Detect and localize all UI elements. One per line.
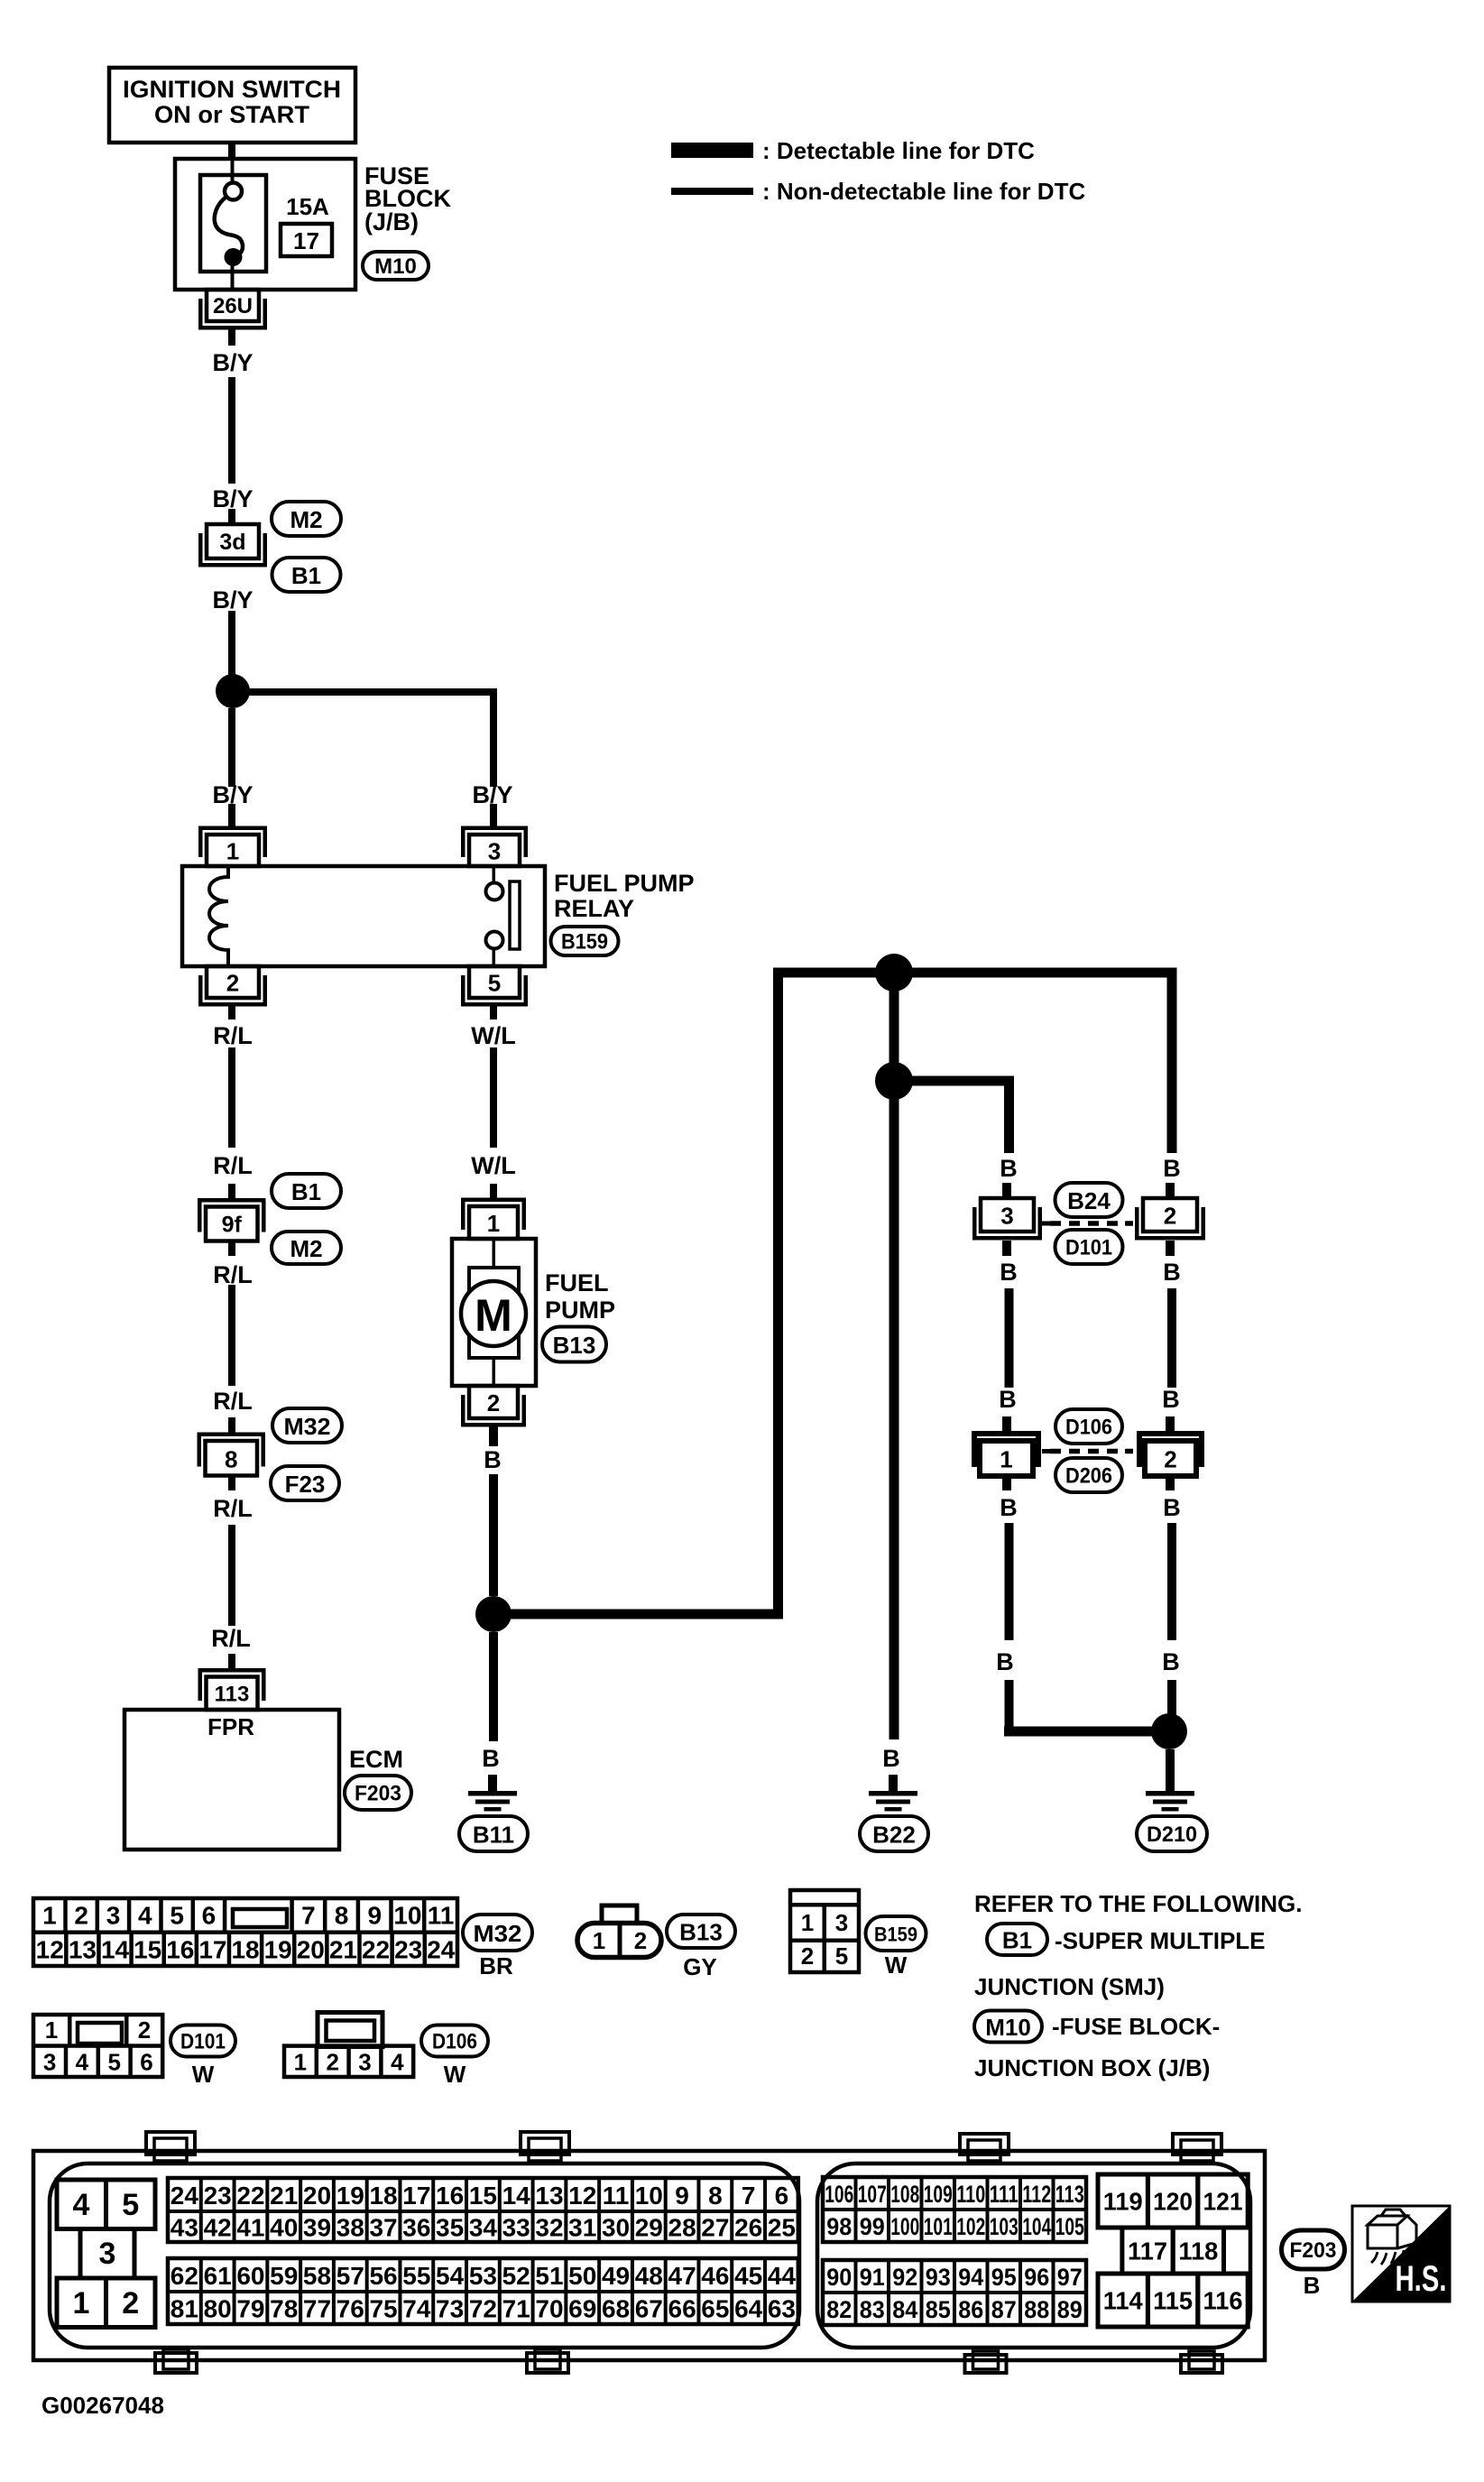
svg-text:B: B	[482, 1745, 500, 1772]
svg-text:84: 84	[892, 2296, 917, 2323]
svg-text:48: 48	[635, 2262, 663, 2290]
relay coil	[209, 868, 228, 966]
svg-text:B24: B24	[1067, 1187, 1111, 1214]
wire label B/Y left	[212, 781, 253, 808]
svg-text:27: 27	[701, 2214, 729, 2242]
wire stub below relay pin 2	[228, 1005, 235, 1020]
svg-text:45: 45	[734, 2262, 762, 2290]
svg-text:57: 57	[336, 2262, 364, 2290]
wire label B/Y	[212, 349, 253, 376]
relay terminal 3	[461, 826, 528, 867]
svg-text:68: 68	[602, 2295, 630, 2323]
svg-text:B: B	[1162, 1648, 1180, 1675]
relay terminal 2	[198, 966, 267, 1007]
svg-text:111: 111	[990, 2181, 1019, 2208]
svg-text:GY: GY	[683, 1953, 717, 1980]
svg-text:B: B	[999, 1386, 1017, 1413]
svg-text:R/L: R/L	[213, 1388, 253, 1415]
svg-text:104: 104	[1022, 2213, 1051, 2240]
svg-text:PUMP: PUMP	[545, 1296, 615, 1324]
connector 3 B24/D101 left	[972, 1198, 1050, 1241]
connector face view D106	[284, 2013, 413, 2078]
ECM key pins 1-5	[57, 2180, 155, 2328]
svg-text:75: 75	[369, 2295, 397, 2323]
svg-text:106: 106	[825, 2181, 853, 2208]
svg-text:B/Y: B/Y	[212, 586, 253, 614]
svg-text:82: 82	[826, 2296, 852, 2323]
wire col2 to node E	[1167, 1680, 1176, 1731]
wire stub above connector 3	[1002, 1183, 1011, 1200]
svg-text:B159: B159	[561, 930, 608, 955]
label FUEL PUMP	[545, 1269, 615, 1324]
svg-text:M10: M10	[374, 254, 417, 279]
svg-text:16: 16	[166, 1936, 194, 1964]
wire label B left ground	[482, 1745, 500, 1772]
svg-text:1: 1	[801, 1909, 814, 1936]
label ECM	[349, 1746, 403, 1773]
svg-text:83: 83	[860, 2296, 885, 2323]
svg-text:R/L: R/L	[213, 1152, 253, 1179]
fuel pump relay box	[182, 866, 545, 966]
ECM pin grid 106-113 / 98-105	[823, 2177, 1086, 2242]
svg-text:17: 17	[402, 2182, 430, 2210]
svg-text:21: 21	[329, 1936, 357, 1964]
svg-text:5: 5	[488, 970, 501, 997]
svg-text:78: 78	[270, 2295, 298, 2323]
connector 9f	[198, 1198, 266, 1241]
relay contact circle top	[486, 883, 503, 900]
svg-text:32: 32	[535, 2214, 563, 2242]
svg-text:B159: B159	[874, 1924, 917, 1946]
svg-text:102: 102	[956, 2213, 985, 2240]
svg-text:20: 20	[303, 2182, 331, 2210]
note SUPER MULTIPLE	[1055, 1927, 1266, 1954]
svg-text:B1: B1	[291, 562, 321, 589]
wire stub below connector 2 right	[1166, 1241, 1175, 1256]
svg-text:25: 25	[768, 2214, 796, 2242]
svg-text:53: 53	[469, 2262, 497, 2290]
svg-text:M32: M32	[474, 1920, 522, 1947]
wire col1 vertical low	[1005, 1523, 1014, 1640]
connector ref D106 oval	[1055, 1409, 1122, 1444]
svg-text:26U: 26U	[213, 294, 253, 318]
svg-text:39: 39	[303, 2214, 331, 2242]
svg-text:24: 24	[427, 1936, 456, 1964]
ground symbol B22	[869, 1791, 917, 1812]
svg-text:90: 90	[826, 2264, 852, 2291]
ECM pin grid 24-6 / 43-25	[168, 2178, 798, 2242]
svg-text:5: 5	[170, 1902, 184, 1930]
svg-text:RELAY: RELAY	[554, 895, 634, 922]
thick wire right column down	[1167, 973, 1177, 1153]
svg-text:72: 72	[469, 2295, 497, 2323]
wire node E to D210 ground	[1166, 1749, 1175, 1792]
wire junction A to relay pin1 branch	[228, 708, 235, 787]
wire label B col1 lowest	[996, 1648, 1014, 1675]
thick wire right riser vertical	[773, 973, 783, 1614]
ECM connector top tabs	[146, 2132, 1221, 2161]
connector face view D101	[33, 2015, 162, 2078]
label BR	[479, 1952, 513, 1979]
svg-text:28: 28	[668, 2214, 696, 2242]
fuel pump motor wire bottom	[493, 1358, 496, 1386]
wire label R/L 4	[213, 1388, 253, 1415]
wire label B col1 top	[1000, 1155, 1018, 1182]
note JUNCTION (SMJ)	[974, 1973, 1165, 2000]
wire stub below connector 1	[1002, 1476, 1011, 1490]
wire B/Y to junction	[228, 611, 235, 675]
svg-text:1: 1	[593, 1927, 605, 1954]
svg-text:37: 37	[369, 2214, 397, 2242]
legend detectable text	[762, 137, 1035, 164]
wire label B col2 low	[1162, 1386, 1180, 1413]
svg-text:22: 22	[362, 1936, 390, 1964]
legend non-detectable line bar	[671, 188, 753, 195]
fuse number box 17	[281, 224, 332, 256]
svg-text:3: 3	[43, 2049, 56, 2076]
svg-text:6: 6	[775, 2182, 789, 2210]
svg-text:49: 49	[602, 2262, 630, 2290]
svg-text:B: B	[484, 1446, 502, 1473]
svg-text:47: 47	[668, 2262, 696, 2290]
svg-text:77: 77	[303, 2295, 331, 2323]
svg-text:63: 63	[768, 2295, 796, 2323]
svg-text:JUNCTION (SMJ): JUNCTION (SMJ)	[974, 1973, 1165, 2000]
svg-text:43: 43	[171, 2214, 198, 2242]
wire stub below connector 3	[1002, 1241, 1011, 1256]
svg-text:118: 118	[1178, 2237, 1218, 2265]
svg-text:B22: B22	[872, 1822, 916, 1849]
wire label B col1 bottom	[1000, 1494, 1018, 1521]
svg-text:JUNCTION BOX (J/B): JUNCTION BOX (J/B)	[974, 2054, 1210, 2081]
wire R/L vertical 1	[228, 1047, 235, 1148]
svg-text:1: 1	[42, 1902, 57, 1930]
svg-text:W/L: W/L	[471, 1022, 515, 1049]
connector ref D101 oval bottom	[171, 2025, 235, 2057]
svg-text:113: 113	[1055, 2181, 1084, 2208]
svg-text:101: 101	[924, 2213, 953, 2240]
svg-text:92: 92	[892, 2264, 917, 2291]
wire branch down to relay pin3	[490, 692, 497, 787]
connector 2 D106/D206 right	[1125, 1431, 1204, 1476]
svg-text:M32: M32	[284, 1413, 331, 1440]
svg-text:15: 15	[134, 1936, 161, 1964]
wire stub below relay pin 5	[490, 1005, 497, 1020]
junction node C	[875, 954, 913, 992]
thick wire node D horizontal	[894, 1076, 1014, 1086]
fuel pump terminal 1	[461, 1198, 526, 1240]
svg-text:117: 117	[1128, 2237, 1167, 2265]
ground symbol B11	[468, 1791, 517, 1812]
svg-text:12: 12	[36, 1936, 64, 1964]
svg-text:4: 4	[138, 1902, 152, 1930]
svg-text:B/Y: B/Y	[212, 349, 253, 376]
wire stub to B11 ground	[488, 1775, 497, 1792]
connector ref M32 oval	[272, 1408, 342, 1443]
thick wire joining line	[1004, 1727, 1172, 1737]
svg-text:107: 107	[858, 2181, 887, 2208]
svg-text:113: 113	[215, 1682, 250, 1706]
wire label R/L 5	[213, 1495, 253, 1522]
svg-text:D206: D206	[1065, 1464, 1112, 1489]
svg-text:REFER TO THE FOLLOWING.: REFER TO THE FOLLOWING.	[974, 1890, 1303, 1917]
svg-text:69: 69	[568, 2295, 596, 2323]
svg-text:2: 2	[138, 2016, 151, 2044]
connector ref M10 oval	[363, 252, 429, 280]
fuse 15A No.17 symbol	[200, 161, 266, 290]
svg-text:4: 4	[76, 2049, 89, 2076]
svg-text:89: 89	[1057, 2296, 1083, 2323]
figure number G00267048	[41, 2392, 164, 2419]
svg-text:33: 33	[502, 2214, 530, 2242]
connector ref B159 oval bottom	[866, 1916, 926, 1951]
junction node D	[875, 1062, 913, 1100]
svg-text:B: B	[1000, 1494, 1018, 1521]
svg-text:BR: BR	[479, 1952, 513, 1979]
ECM pin cluster 114-121	[1098, 2174, 1248, 2327]
wire col1 to joining line	[1005, 1680, 1014, 1731]
thick wire node D to B22 ground	[889, 1081, 899, 1739]
svg-text:2: 2	[74, 1902, 88, 1930]
wire junction A horizontal branch	[233, 688, 497, 696]
svg-text:B1: B1	[1002, 1927, 1032, 1954]
svg-text:-FUSE BLOCK-: -FUSE BLOCK-	[1052, 2013, 1220, 2040]
svg-text:18: 18	[231, 1936, 259, 1964]
svg-text:B/Y: B/Y	[212, 485, 253, 512]
svg-text:20: 20	[297, 1936, 325, 1964]
svg-text:38: 38	[336, 2214, 364, 2242]
connector 1 D106/D206 left	[972, 1431, 1050, 1476]
svg-text:51: 51	[535, 2262, 563, 2290]
connector ref D206 oval	[1055, 1458, 1122, 1492]
label W D101	[192, 2061, 215, 2088]
connector ref F23 oval	[271, 1466, 339, 1500]
fuel pump body box	[452, 1239, 536, 1386]
svg-text:13: 13	[535, 2182, 563, 2210]
svg-text:35: 35	[436, 2214, 464, 2242]
svg-text:FUEL PUMP: FUEL PUMP	[554, 870, 695, 897]
svg-text:: Non-detectable line for DTC: : Non-detectable line for DTC	[762, 178, 1085, 205]
svg-text:31: 31	[568, 2214, 596, 2242]
label W D106	[444, 2061, 466, 2088]
svg-text:: Detectable line for DTC: : Detectable line for DTC	[762, 137, 1035, 164]
svg-text:B: B	[996, 1648, 1014, 1675]
wire stub above 113	[228, 1654, 235, 1668]
svg-text:13: 13	[69, 1936, 97, 1964]
note JUNCTION BOX (J/B)	[974, 2054, 1210, 2081]
relay terminal 5	[461, 966, 528, 1007]
label FUEL PUMP RELAY	[554, 870, 695, 922]
svg-text:FUEL: FUEL	[545, 1269, 609, 1296]
connector ref B13 oval bottom	[667, 1915, 735, 1948]
junction node E	[1151, 1713, 1187, 1749]
svg-text:2: 2	[1164, 1203, 1176, 1230]
wire stub above connector 2 lower	[1166, 1416, 1175, 1435]
svg-text:81: 81	[171, 2295, 198, 2323]
svg-text:17: 17	[198, 1936, 226, 1964]
wire label R/L 2	[213, 1152, 253, 1179]
svg-text:W/L: W/L	[471, 1152, 515, 1179]
svg-text:62: 62	[171, 2262, 198, 2290]
svg-text:18: 18	[369, 2182, 397, 2210]
wire label B/Y 2	[212, 485, 253, 512]
thick wire junction B to right riser	[493, 1610, 783, 1619]
svg-text:R/L: R/L	[213, 1022, 253, 1049]
wire stub to B22 ground	[889, 1775, 898, 1792]
svg-text:5: 5	[107, 2049, 120, 2076]
connector 8	[198, 1433, 266, 1476]
junction node A	[216, 674, 250, 708]
svg-text:M: M	[475, 1290, 512, 1341]
svg-text:44: 44	[768, 2262, 797, 2290]
wire junction B to ground	[489, 1632, 498, 1741]
svg-text:85: 85	[926, 2296, 951, 2323]
svg-text:7: 7	[301, 1902, 316, 1930]
svg-text:F23: F23	[285, 1471, 326, 1498]
wire label B col2 top	[1163, 1155, 1181, 1182]
H.S. harness side icon	[1352, 2206, 1450, 2302]
ground ref D210 oval	[1137, 1816, 1207, 1851]
svg-text:59: 59	[270, 2262, 298, 2290]
svg-text:1: 1	[294, 2049, 307, 2076]
svg-text:4: 4	[391, 2049, 404, 2076]
svg-text:105: 105	[1055, 2213, 1084, 2240]
connector ref M2 oval	[272, 502, 341, 536]
svg-text:50: 50	[568, 2262, 596, 2290]
wire stub above pump pin 1	[490, 1184, 497, 1198]
wire label B col2 mid	[1163, 1259, 1181, 1286]
svg-text:93: 93	[926, 2264, 951, 2291]
legend detectable line bar	[671, 143, 753, 158]
svg-text:42: 42	[204, 2214, 232, 2242]
svg-text:30: 30	[602, 2214, 630, 2242]
wire label B col2 bottom	[1163, 1494, 1181, 1521]
svg-text:16: 16	[436, 2182, 464, 2210]
wire stub below 9f	[228, 1241, 235, 1257]
svg-text:4: 4	[73, 2188, 90, 2222]
wire label W/L 2	[471, 1152, 515, 1179]
svg-text:3: 3	[99, 2237, 116, 2271]
note REFER TO THE FOLLOWING	[974, 1890, 1303, 1917]
svg-text:60: 60	[236, 2262, 264, 2290]
svg-text:15A: 15A	[286, 193, 329, 220]
thick wire node C to node D	[889, 973, 899, 1081]
svg-text:9: 9	[675, 2182, 689, 2210]
relay contact circle bottom	[486, 932, 503, 949]
label GY	[683, 1953, 717, 1980]
wire stub below 8	[228, 1476, 235, 1491]
thick wire down to connector 3	[1004, 1081, 1014, 1153]
ECM box	[124, 1710, 339, 1850]
fuse block (J/B) box M10	[175, 159, 355, 290]
svg-text:2: 2	[1164, 1446, 1176, 1473]
wire label B col1 mid	[1000, 1259, 1018, 1286]
connector ref B13 oval	[542, 1327, 606, 1362]
wire col1 vertical mid	[1005, 1288, 1014, 1388]
connector 113	[198, 1668, 266, 1710]
wire col2 vertical low	[1167, 1523, 1176, 1640]
svg-text:14: 14	[502, 2182, 531, 2210]
svg-text:46: 46	[701, 2262, 729, 2290]
inline connector dashed line B24	[1050, 1221, 1133, 1226]
svg-text:B: B	[1162, 1386, 1180, 1413]
svg-text:R/L: R/L	[213, 1261, 253, 1288]
connector face view B13	[577, 1905, 661, 1958]
svg-text:10: 10	[635, 2182, 663, 2210]
wire stub to relay pin 1	[228, 804, 235, 826]
svg-text:2: 2	[487, 1389, 500, 1416]
svg-text:8: 8	[335, 1902, 349, 1930]
svg-text:97: 97	[1057, 2264, 1083, 2291]
ECM pin grid 90-97 / 82-89	[823, 2260, 1086, 2325]
svg-text:36: 36	[402, 2214, 430, 2242]
connector ref D101 oval	[1055, 1230, 1123, 1264]
svg-text:70: 70	[535, 2295, 563, 2323]
svg-text:W: W	[192, 2061, 215, 2088]
svg-text:54: 54	[436, 2262, 465, 2290]
svg-text:2: 2	[122, 2286, 139, 2321]
wire stub above connector 1	[1002, 1416, 1011, 1435]
ECM connector bottom tabs	[155, 2349, 1222, 2373]
connector 3d	[198, 524, 267, 567]
svg-text:109: 109	[924, 2181, 953, 2208]
svg-text:8: 8	[225, 1445, 237, 1472]
svg-text:94: 94	[958, 2264, 983, 2291]
svg-text:G00267048: G00267048	[41, 2392, 164, 2419]
wire B/Y vertical	[228, 377, 235, 484]
connector ref B159 oval	[551, 927, 619, 955]
svg-text:3: 3	[106, 1902, 121, 1930]
svg-text:17: 17	[293, 227, 319, 254]
svg-text:23: 23	[394, 1936, 422, 1964]
svg-text:116: 116	[1203, 2287, 1243, 2315]
wire R/L vertical 2	[228, 1285, 235, 1386]
svg-text:79: 79	[236, 2295, 264, 2323]
connector ref M32 oval bottom	[463, 1915, 532, 1951]
svg-text:115: 115	[1153, 2287, 1193, 2315]
svg-text:10: 10	[393, 1902, 421, 1930]
connector 2 B24/D101 right	[1125, 1198, 1205, 1241]
svg-text:65: 65	[701, 2295, 729, 2323]
svg-text:66: 66	[668, 2295, 696, 2323]
svg-text:71: 71	[502, 2295, 530, 2323]
svg-text:B11: B11	[473, 1822, 514, 1849]
svg-text:1: 1	[226, 838, 239, 865]
connector ref B24 oval	[1055, 1183, 1123, 1217]
svg-text:121: 121	[1203, 2188, 1243, 2216]
svg-text:23: 23	[204, 2182, 232, 2210]
svg-text:120: 120	[1153, 2188, 1193, 2216]
svg-text:11: 11	[428, 1902, 455, 1930]
wire stub above 9f	[228, 1184, 235, 1198]
wire stub above 8	[228, 1417, 235, 1433]
svg-text:D106: D106	[432, 2030, 477, 2054]
svg-text:88: 88	[1024, 2296, 1049, 2323]
fuel pump motor M circle	[461, 1281, 526, 1346]
svg-text:3: 3	[358, 2049, 371, 2076]
svg-text:103: 103	[990, 2213, 1019, 2240]
svg-text:ON or START: ON or START	[154, 101, 310, 128]
note FUSE BLOCK	[1052, 2013, 1220, 2040]
wire stub below connector 2 lower	[1166, 1476, 1175, 1490]
ground ref B22 oval	[860, 1816, 928, 1851]
svg-text:34: 34	[469, 2214, 498, 2242]
svg-text:11: 11	[603, 2182, 630, 2210]
svg-text:96: 96	[1024, 2264, 1049, 2291]
svg-text:112: 112	[1022, 2181, 1051, 2208]
fuel pump terminal 2	[461, 1386, 526, 1427]
svg-text:61: 61	[204, 2262, 232, 2290]
